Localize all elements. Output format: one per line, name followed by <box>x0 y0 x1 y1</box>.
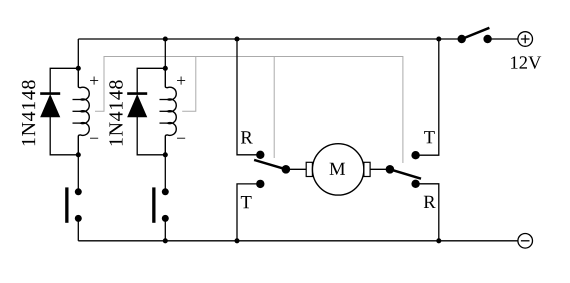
motor M brush left <box>306 162 312 176</box>
label contact R right <box>424 196 436 208</box>
label contact T left <box>241 196 252 208</box>
wire diode D1 bottom branch <box>50 117 78 155</box>
mechanical link relay 1 (gray) <box>95 57 274 159</box>
wire pushbutton S1 to bottom rail <box>77 218 79 240</box>
coil K2 tick 3 <box>160 122 168 124</box>
wire pushbutton S2 to bottom rail <box>164 218 166 240</box>
node coil2 bottom <box>163 152 168 157</box>
motor M brush right <box>364 162 370 176</box>
coil K1 tick 3 <box>73 122 81 124</box>
terminal plus sign <box>521 35 530 44</box>
label coil K2 minus <box>177 137 185 140</box>
node bottom rail middle column <box>234 238 239 243</box>
wire R throw to bottom rail <box>416 184 439 241</box>
diode D1 triangle <box>41 95 60 117</box>
pushbutton S2 contact bottom <box>162 215 169 222</box>
coil K1 tick 2 <box>73 110 81 112</box>
node bottom rail right column <box>436 238 441 243</box>
label 12V <box>511 56 541 69</box>
mechanical link relay 2 (gray) <box>182 57 403 164</box>
diode D1 cathode bar <box>40 92 60 95</box>
diode D2 cathode bar <box>127 92 147 95</box>
node bottom rail K2 <box>163 238 168 243</box>
node coil2 top <box>163 66 168 71</box>
terminal minus sign <box>521 240 530 242</box>
wire motor to right SPDT common <box>370 168 390 170</box>
pushbutton S1 contact bottom <box>75 215 82 222</box>
wire coil2 bottom to pushbutton <box>164 155 166 192</box>
wire coil1 bottom to pushbutton <box>77 155 79 192</box>
wire diode D1 top branch <box>50 68 78 93</box>
coil K2 tick 1 <box>160 99 168 101</box>
node coil1 bottom <box>76 152 81 157</box>
label motor M <box>330 163 345 175</box>
node top rail right column <box>436 36 441 41</box>
label coil K1 minus <box>90 137 98 140</box>
wire top rail <box>78 38 461 40</box>
wire right column top to T throw <box>416 39 439 155</box>
supply switch dot right <box>483 35 491 43</box>
contact dot T right throw <box>411 151 419 159</box>
node top rail middle column <box>234 36 239 41</box>
pushbutton S1 actuator bar <box>65 187 68 222</box>
coil K1 tick 1 <box>73 99 81 101</box>
label coil K1 plus <box>90 77 98 85</box>
common dot right SPDT <box>386 165 395 174</box>
diode D2 triangle <box>128 95 147 117</box>
common dot left SPDT <box>282 165 291 174</box>
terminal minus circle <box>518 234 533 249</box>
label coil K2 plus <box>177 77 185 85</box>
inductor coil K2 <box>165 68 176 155</box>
switch lever left SPDT <box>254 160 286 169</box>
node top rail K2 <box>163 36 168 41</box>
label D1 1N4148 <box>22 80 35 145</box>
wire middle column to R throw <box>237 39 260 155</box>
motor M body <box>312 144 363 195</box>
contact dot R left throw <box>256 151 264 159</box>
switch lever right SPDT <box>390 169 421 178</box>
label contact T right <box>424 131 435 143</box>
wire left SPDT common to motor <box>286 168 306 170</box>
wire T throw to bottom rail <box>237 184 260 241</box>
terminal plus circle <box>518 32 533 47</box>
wire diode D2 top branch <box>137 68 165 93</box>
wire K2 column top <box>164 39 166 68</box>
wire diode D2 bottom branch <box>137 117 165 155</box>
contact dot T left throw <box>256 180 264 188</box>
contact dot R right throw <box>411 180 419 188</box>
supply switch lever <box>462 28 490 39</box>
node coil1 top <box>76 66 81 71</box>
inductor coil K1 <box>78 68 89 155</box>
pushbutton S1 contact top <box>75 188 82 195</box>
label D2 1N4148 <box>109 80 122 145</box>
pushbutton S2 actuator bar <box>152 187 155 222</box>
wire switch to plus terminal <box>488 38 519 40</box>
wire left column K1 (top rail to coil top node) <box>77 39 79 68</box>
supply switch dot left <box>458 35 466 43</box>
label contact R left <box>241 131 253 143</box>
wire bottom rail <box>78 240 518 242</box>
coil K2 tick 2 <box>160 110 168 112</box>
pushbutton S2 contact top <box>162 188 169 195</box>
